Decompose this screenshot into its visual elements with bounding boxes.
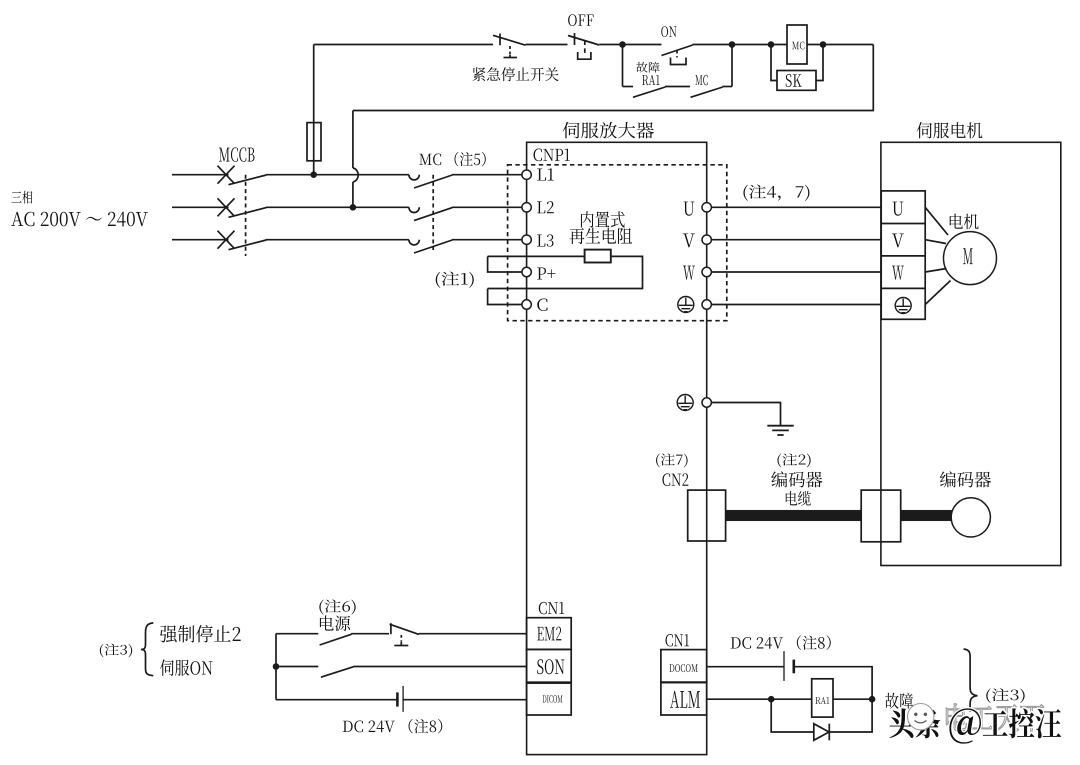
- junction on L2: [350, 204, 357, 211]
- label 三相: [11, 191, 32, 204]
- label 紧急停止开关: [472, 67, 558, 81]
- wire MC pole 2 to CNP1: [452, 206, 522, 208]
- battery DC 24V (bottom left): [396, 692, 399, 706]
- MC contactor pole 1 blade: [414, 175, 452, 188]
- motor terminal W: [892, 266, 904, 280]
- wire branch down from node A: [622, 45, 624, 87]
- label 编码器 (cable): [771, 471, 822, 487]
- motor lead PE: [925, 281, 950, 305]
- dashed connector CNP1 box: [508, 165, 727, 321]
- CN1 terminal DICOM box: [527, 683, 572, 715]
- label 再生电阻: [570, 228, 633, 245]
- earth ground symbol: [767, 425, 793, 427]
- left vertical wire bottom circuit: [275, 634, 277, 700]
- encoder circle: [951, 498, 990, 537]
- wire MCCB to MC pole 2: [266, 206, 409, 208]
- junction dot left on ALM line: [768, 696, 775, 703]
- wire MC pole 1 to CNP1: [452, 174, 522, 176]
- wire MCCB to MC pole 1: [266, 174, 409, 176]
- motor side connector box: [861, 490, 901, 542]
- MC contactor pole 2 blade: [414, 208, 452, 221]
- label MC （注5）: [419, 152, 485, 167]
- motor terminal PE symbol: [895, 298, 911, 314]
- label 编码器 (encoder): [940, 471, 991, 487]
- MCCB pole 1 blade: [229, 175, 267, 185]
- label 内置式: [581, 211, 625, 227]
- motor terminal U: [892, 202, 903, 216]
- encoder cable thick segment 2: [901, 510, 952, 521]
- junction node B: [729, 41, 736, 48]
- wire PE to motor: [711, 304, 881, 306]
- terminal U output: [702, 203, 711, 212]
- junction dot on SON line: [273, 663, 280, 670]
- terminal W output: [702, 267, 711, 276]
- jumper P+ (注1): [488, 256, 522, 272]
- terminal V output: [702, 235, 711, 244]
- junction on L1: [310, 171, 317, 178]
- power switch 电源 NO contact on EM2 line: [276, 633, 318, 635]
- label (注3) left: [100, 644, 132, 658]
- label 故障: [885, 693, 913, 709]
- CN1 terminal SON box: [527, 649, 572, 682]
- MC mechanical link dashed: [432, 175, 434, 250]
- resistor to right vertical: [488, 256, 643, 288]
- label DC 24V （注8） bottom middle: [731, 635, 831, 650]
- push button OFF NC contact: [574, 33, 576, 45]
- phase line 2 input wire: [172, 206, 229, 208]
- watermark gray text 电工天下: [946, 704, 1044, 732]
- terminal C: [522, 300, 531, 309]
- label CN1 lower: [666, 634, 690, 646]
- watermark @ symbol: [949, 708, 981, 743]
- servo motor box: [881, 142, 1061, 565]
- junction dot right of MC coil: [820, 41, 827, 48]
- wire node B to MC coil: [732, 44, 787, 46]
- motor circle M: [944, 232, 997, 285]
- phase line 3 input wire: [172, 239, 229, 241]
- MC contactor pole 2 fixed contact: [409, 207, 419, 212]
- terminal L2: [522, 203, 531, 212]
- push button ON NO contact: [623, 44, 662, 46]
- PE symbol circled earth at output: [678, 297, 694, 313]
- label (注2): [777, 453, 810, 467]
- battery DC 24V (bottom middle): [783, 651, 785, 681]
- wire PE2 to earth: [711, 403, 780, 426]
- freewheeling diode: [814, 724, 829, 741]
- MCCB pole 3 blade: [229, 240, 267, 250]
- watermark logo face circle: [908, 704, 934, 730]
- label (注4，7): [743, 185, 809, 201]
- terminal PE output: [702, 300, 711, 309]
- emergency stop switch NC contact 紧急停止开关: [499, 34, 501, 46]
- label AC 200V ~ 240V: [11, 212, 148, 227]
- label 伺服放大器: [563, 122, 654, 139]
- label 伺服ON: [160, 659, 212, 676]
- relay coil RA1: [812, 679, 833, 717]
- MC contactor pole 3 fixed contact: [409, 240, 419, 245]
- wire ALM to RA1: [707, 698, 812, 700]
- encoder cable thick segment 1: [726, 510, 862, 521]
- jumper C (注1): [488, 289, 522, 305]
- label MC (self-hold contact): [695, 75, 708, 85]
- PE symbol circled earth left of terminal: [677, 395, 693, 411]
- label DC 24V （注8） bottom left: [343, 719, 442, 734]
- junction node A: [619, 41, 626, 48]
- brace for fault output (注3): [964, 649, 978, 712]
- label CN1 upper: [539, 602, 564, 614]
- diode branch right: [829, 699, 872, 732]
- wire from fuse to emergency stop switch: [314, 44, 493, 46]
- label ON: [661, 26, 676, 37]
- terminal L3: [522, 235, 531, 244]
- motor lead U: [925, 207, 948, 235]
- wire branch up to node B: [731, 45, 733, 87]
- MCCB pole 2 blade: [229, 208, 267, 218]
- CN1 terminal ALM box: [661, 683, 707, 715]
- servo-on switch NO contact on SON line: [276, 666, 318, 668]
- label 电源: [320, 615, 350, 631]
- label RA1: [642, 75, 659, 85]
- wire down to phase L2 with hop over L1: [352, 111, 354, 169]
- label CN2: [662, 473, 688, 486]
- wire MC pole 3 to CNP1: [452, 239, 522, 241]
- phase line 1 input wire: [172, 174, 229, 176]
- motor lead W: [925, 269, 946, 273]
- wire battery to right corner down to ALM line: [794, 667, 872, 700]
- wire MCCB to MC pole 3: [266, 239, 409, 241]
- motor lead V: [925, 240, 946, 244]
- label 强制停止2: [160, 625, 241, 643]
- label (注6): [319, 599, 355, 614]
- MCCB pole 3 cross mark: [218, 231, 235, 249]
- label 电缆: [786, 491, 811, 506]
- wire to SK left: [771, 45, 777, 81]
- label (注3) right: [986, 688, 1024, 703]
- MCCB mechanical link dashed: [245, 175, 247, 256]
- built-in regenerative resistor wire top: [488, 255, 585, 257]
- watermark black text 头条: [889, 708, 940, 738]
- label MCCB: [219, 147, 254, 161]
- surge absorber SK: [777, 71, 816, 91]
- brace for 强制停止2/伺服ON: [141, 623, 153, 676]
- wire to SK right: [816, 45, 823, 81]
- label OFF: [568, 14, 593, 26]
- label 故障: [636, 62, 659, 73]
- label (注1): [436, 272, 474, 288]
- terminal P+: [522, 267, 531, 276]
- label 伺服电机: [917, 122, 983, 138]
- diode branch down left: [771, 699, 814, 732]
- watermark black text 工控汪: [983, 708, 1061, 738]
- forced stop button NC contact: [390, 623, 392, 634]
- CN1 terminal DOCOM box: [661, 650, 707, 683]
- terminal L1: [522, 170, 531, 179]
- MCCB pole 1 cross mark: [218, 166, 235, 184]
- terminal PE2 on amplifier: [702, 398, 711, 407]
- contactor contact MC NO self-holding: [691, 87, 723, 97]
- junction dot left of MC coil: [768, 41, 775, 48]
- regenerative resistor R: [585, 250, 611, 263]
- MC contactor pole 1 fixed contact: [409, 175, 419, 180]
- wire U to motor: [711, 206, 881, 208]
- motor terminal V: [892, 233, 904, 247]
- junction dot right on ALM line: [869, 696, 876, 703]
- label (注7): [656, 453, 688, 467]
- wire W to motor: [711, 271, 881, 273]
- wire DOCOM to battery: [707, 666, 784, 668]
- wire RA1 to right: [833, 698, 872, 700]
- motor terminal block: [881, 191, 925, 319]
- CN1 terminal EM2 box: [527, 618, 572, 650]
- fuse F1: [313, 45, 315, 175]
- wire V to motor: [711, 239, 881, 241]
- connector CN2 box: [688, 490, 726, 541]
- servo amplifier box: [527, 142, 707, 754]
- label CNP1: [534, 149, 570, 162]
- relay contact RA1 NO: [623, 86, 634, 88]
- MC contactor pole 3 blade: [414, 240, 452, 253]
- wire MC coil to right corner: [807, 44, 873, 46]
- MCCB pole 2 cross mark: [218, 198, 235, 216]
- wire right side down and return to L2: [353, 45, 873, 111]
- contactor coil MC: [787, 25, 807, 64]
- label 电机: [950, 214, 979, 230]
- wire DICOM to battery: [276, 699, 397, 701]
